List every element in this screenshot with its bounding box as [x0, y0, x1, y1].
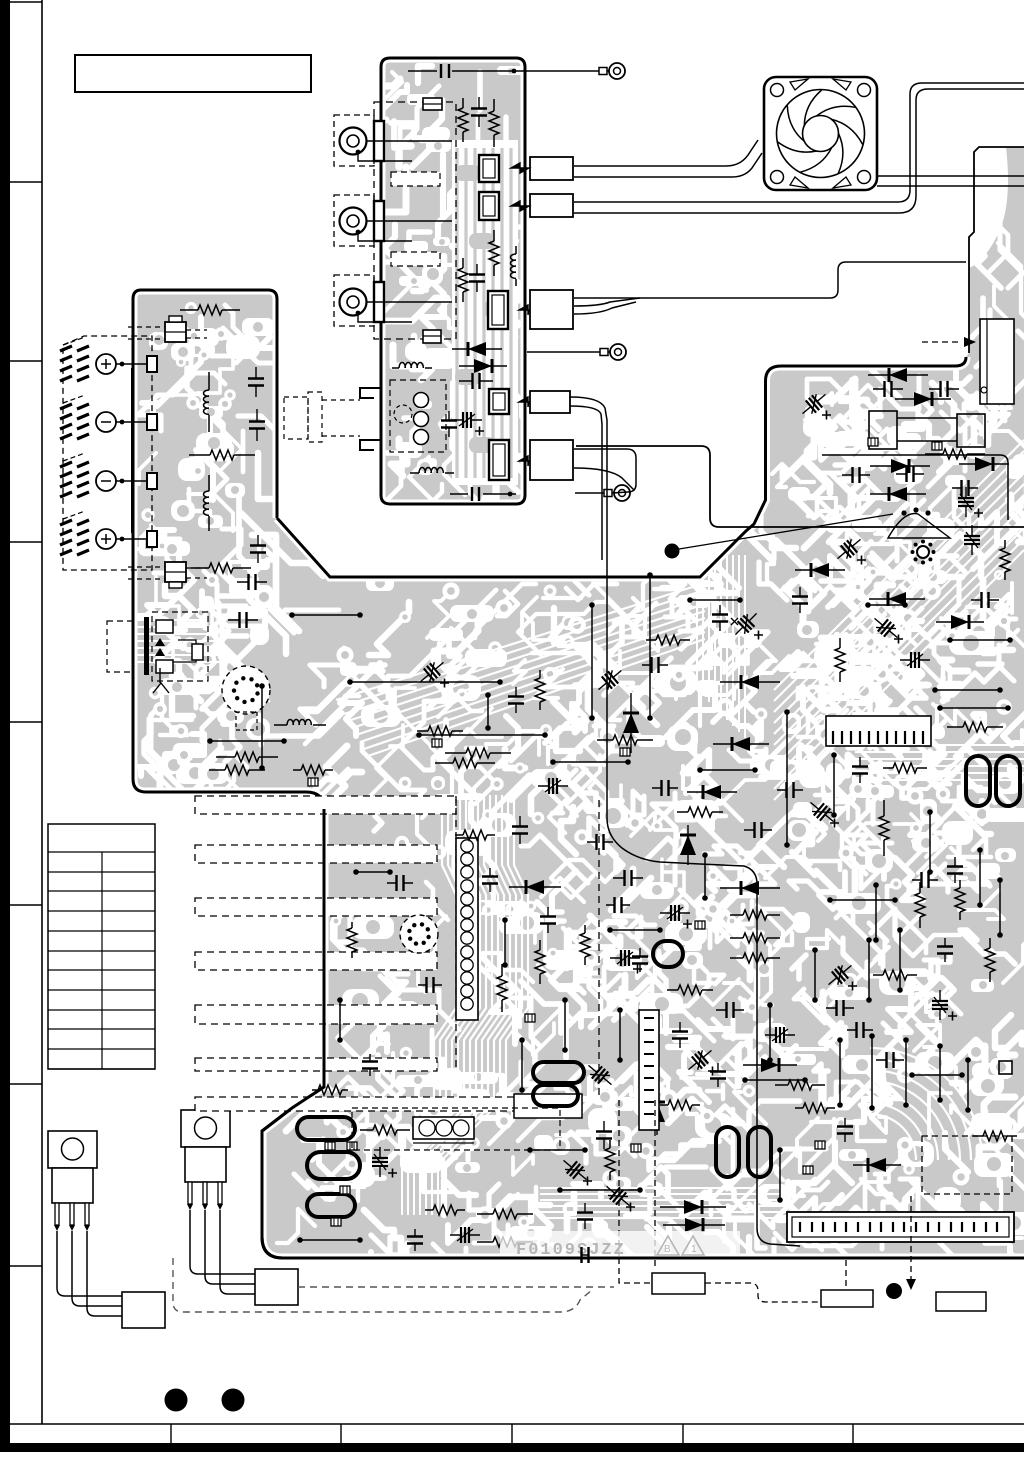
speaker wire hatch 3: [60, 462, 89, 497]
volume pot: [222, 666, 270, 714]
bottom black dot: [886, 1283, 902, 1299]
jack protrusion left: [360, 388, 381, 450]
speaker dashed outline: [63, 336, 152, 570]
terminal pad 2: [147, 414, 157, 430]
mid cluster: [917, 546, 929, 558]
svg-text:B: B: [664, 1244, 671, 1255]
CN5 wires: [574, 449, 636, 493]
jack dashed callout left: [308, 392, 322, 442]
extra center cluster: [509, 880, 561, 894]
transistor Q2: [181, 1110, 230, 1210]
parts table: [48, 824, 155, 1069]
fuse box bottom: [165, 562, 186, 582]
terminal pad 1: [147, 356, 157, 372]
speaker wire hatch 4: [60, 520, 89, 555]
terminal +4: [96, 529, 116, 549]
title box: [75, 55, 311, 92]
fuse box top: [165, 322, 186, 342]
warning triangles: [657, 1236, 679, 1255]
right PCB white pocket: [969, 147, 1008, 268]
re-stroke lower outline: [262, 809, 1024, 1258]
cooling fan: [764, 77, 877, 190]
terminal pad 3: [147, 473, 157, 489]
transistor Q1: [48, 1131, 97, 1231]
connector CN5: [530, 440, 573, 480]
dashed harness lines bottom: [298, 1286, 614, 1288]
main PCB lower outline: [262, 809, 1024, 1258]
right stadium caps: [966, 756, 990, 806]
main PCB copper: [133, 147, 1024, 1258]
Q1 connector box: [122, 1292, 165, 1328]
bottom-center: [716, 1127, 739, 1177]
speaker wire hatch 2: [60, 404, 89, 439]
bottom right comb connector: [787, 1212, 1014, 1242]
fuse holder: [869, 411, 897, 449]
terminal +1: [96, 354, 116, 374]
dashed verticals bottom: [619, 1100, 655, 1270]
Q2 connector box: [255, 1269, 298, 1305]
shield dashed box upper PCB: [374, 102, 456, 339]
test point callout: [665, 544, 680, 559]
RCA jack J1: [334, 115, 374, 166]
bottom edge cap: [450, 493, 516, 495]
headphone jack bar: [144, 617, 149, 675]
mid-lower cluster: [720, 881, 780, 895]
corridor components: [415, 656, 448, 688]
vertical pin comb: [639, 1010, 659, 1130]
border left bar: [0, 0, 10, 1452]
upper PCB copper: [381, 58, 525, 504]
IC comb: [826, 716, 931, 746]
Q2 wires: [190, 1210, 255, 1274]
left board lower parts: [228, 612, 258, 628]
speaker wire hatch 1: [60, 346, 89, 381]
component box top: [423, 98, 442, 110]
extra symbols round2: [795, 563, 845, 577]
inter-board boundary: [576, 446, 1024, 527]
slot dashed rects: [391, 172, 440, 186]
terminal bus line: [131, 368, 133, 533]
connector CN1: [530, 157, 573, 180]
top edge cap and lead to ring: [408, 70, 604, 72]
svg-text:1: 1: [691, 1244, 697, 1255]
fold tick marks: [10, 1, 42, 3]
pads with arrows: [479, 155, 499, 182]
headphone jack dashed outline: [152, 612, 208, 681]
main PCB outline: [277, 357, 966, 577]
J1 wires: [366, 140, 452, 142]
white box mid: [514, 1094, 582, 1118]
terminal -2: [96, 412, 116, 432]
Q1 wires: [57, 1231, 122, 1296]
left board outline: [133, 290, 324, 809]
top cluster diodes: [868, 368, 928, 382]
CN3 harness wires: [574, 262, 966, 298]
registration dot B: [222, 1389, 245, 1412]
headphone jack dashed area: [390, 380, 446, 452]
long wire down right: [700, 864, 800, 1246]
left board parts: [180, 305, 240, 315]
shield outer dashed edge: [455, 796, 457, 1072]
J3 wires: [366, 301, 452, 303]
connector CN4: [530, 391, 570, 413]
shield slot bands: [195, 796, 456, 814]
bottom frame bar: [0, 1443, 1024, 1452]
RCA jack J2: [334, 195, 374, 246]
border left rule: [41, 0, 43, 1424]
dashed rect around 3pin row: [352, 1108, 560, 1150]
terminal -3: [96, 471, 116, 491]
diode pair D upper: [452, 342, 502, 356]
transistor wedge: [888, 514, 950, 539]
RCA jack J3: [334, 275, 374, 326]
component box bottom: [423, 330, 441, 343]
bottom right dotlines: [837, 1037, 843, 1108]
phone jack circles: [414, 393, 429, 408]
CN2 harness wires: [574, 83, 1024, 202]
connector CN3: [530, 290, 573, 329]
ladder connector CN column: [456, 838, 478, 1020]
ring terminal low: [575, 492, 610, 494]
CN4 wires descending: [570, 397, 700, 864]
header connector right PCB: [980, 319, 1014, 404]
jack notches on upper PCB left edge: [374, 121, 384, 161]
right PCB edge: [969, 147, 1024, 353]
ring terminal mid: [527, 351, 606, 353]
upper PCB components: [458, 98, 468, 142]
jack dashed callout left outer: [284, 397, 308, 439]
connector CN2: [530, 194, 573, 217]
terminal pad 4: [147, 531, 157, 547]
rotary encoder: [400, 915, 438, 953]
upper PCB outline: [381, 58, 525, 504]
fan wires from CN1: [574, 140, 758, 166]
code strip backing: [500, 1231, 740, 1256]
registration dot A: [165, 1389, 188, 1412]
3-pin connector: [413, 1117, 474, 1139]
bottom callout boxes: [652, 1273, 705, 1294]
dashed arrow to header: [922, 341, 962, 343]
J2 wires: [366, 220, 452, 222]
fan exit wire: [877, 176, 1024, 186]
bottom frame rule: [10, 1423, 1024, 1425]
headphone jack pads: [156, 620, 173, 633]
svg-text:F0109SJZZ: F0109SJZZ: [516, 1241, 626, 1260]
bottom-left stadium caps: [297, 1117, 355, 1140]
center stadium caps pair: [533, 1062, 584, 1083]
dashed box bottom right: [922, 1136, 1012, 1194]
